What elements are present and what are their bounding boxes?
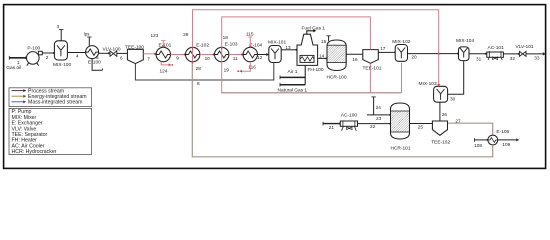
- svg-text:9: 9: [176, 56, 179, 61]
- legend Energy-integrated stream: [12, 94, 87, 100]
- svg-text:P-100: P-100: [27, 46, 40, 52]
- energy loop inner red: [220, 17, 401, 93]
- wire stream 7: [143, 53, 156, 55]
- svg-text:11: 11: [233, 56, 238, 61]
- svg-text:Gas oil: Gas oil: [6, 65, 21, 71]
- wire stream 16: [346, 53, 365, 55]
- svg-text:Fuel Gas 1: Fuel Gas 1: [302, 25, 326, 31]
- svg-text:7: 7: [147, 57, 150, 62]
- wire stream 21 feed: [323, 122, 341, 126]
- exchanger E-101: [156, 47, 170, 61]
- mixer MIX-101: [269, 46, 281, 63]
- svg-text:MIX-100: MIX-100: [53, 62, 71, 68]
- svg-text:3: 3: [57, 24, 60, 29]
- svg-text:TEE-100: TEE-100: [125, 44, 144, 50]
- wire stream 33 outlet: [526, 52, 546, 55]
- svg-text:17: 17: [380, 46, 386, 51]
- svg-text:32: 32: [510, 56, 516, 61]
- svg-text:14: 14: [319, 53, 325, 58]
- wire stream 20: [408, 53, 460, 55]
- energy stream 124 out of E-101: [161, 62, 173, 67]
- svg-text:109: 109: [502, 142, 510, 147]
- wire stream 22: [358, 123, 392, 125]
- wire stream 14: [318, 57, 328, 59]
- svg-text:Mass-integrated stream: Mass-integrated stream: [28, 100, 83, 106]
- reactor HCR-101: [391, 103, 410, 139]
- svg-text:19: 19: [224, 67, 230, 72]
- legend Process stream: [12, 88, 65, 94]
- wire E-100 condensate out: [92, 59, 102, 71]
- energy loop tan from E-102 to E-105: [192, 62, 492, 157]
- mixer MIX-100: [54, 41, 67, 60]
- tee TEE-101: [363, 50, 379, 64]
- svg-text:116: 116: [248, 64, 256, 69]
- svg-text:MIX-101: MIX-101: [268, 40, 286, 46]
- wire stream 15: [326, 36, 330, 41]
- svg-text:13: 13: [285, 45, 291, 50]
- svg-text:23: 23: [376, 116, 382, 121]
- svg-text:123: 123: [151, 33, 159, 38]
- svg-text:26: 26: [442, 112, 448, 117]
- svg-text:25: 25: [418, 125, 424, 130]
- tee TEE-102: [432, 121, 447, 135]
- legend stream box: [9, 88, 92, 107]
- svg-text:FH-100: FH-100: [308, 67, 324, 73]
- wire stream 13: [281, 49, 297, 51]
- reactor HCR-100: [327, 40, 346, 71]
- svg-text:E-103: E-103: [225, 42, 238, 48]
- svg-text:E-102: E-102: [196, 43, 209, 49]
- wire stream 4: [68, 52, 87, 54]
- svg-text:VLV-100: VLV-100: [103, 46, 121, 52]
- svg-text:33: 33: [534, 55, 540, 60]
- svg-text:lps: lps: [84, 32, 89, 37]
- cooler AC-101: [487, 51, 504, 60]
- svg-text:31: 31: [476, 56, 482, 61]
- svg-text:TEE-101: TEE-101: [363, 66, 382, 72]
- svg-text:1: 1: [17, 60, 20, 65]
- svg-text:E-101: E-101: [159, 43, 172, 49]
- wire stream 26: [439, 102, 441, 121]
- wire Natural Gas 1 feed: [280, 66, 305, 87]
- exchanger E-100: [86, 46, 99, 59]
- wire stream 10: [200, 53, 215, 55]
- wire stream 9: [171, 53, 186, 55]
- wire Fuel Gas 1 outlet: [307, 29, 317, 34]
- svg-text:VLV-101: VLV-101: [516, 44, 534, 50]
- svg-text:HCR-101: HCR-101: [391, 145, 411, 151]
- wire lps utility into E-100: [87, 37, 91, 46]
- wire stream 2: [42, 52, 55, 54]
- svg-text:4: 4: [76, 54, 79, 59]
- heater FH-100 furnace: [297, 34, 318, 65]
- svg-text:29: 29: [183, 32, 189, 37]
- svg-text:MIX-103: MIX-103: [419, 81, 437, 87]
- svg-text:5: 5: [96, 55, 99, 60]
- wire stream 32: [503, 53, 519, 55]
- svg-text:20: 20: [411, 55, 417, 60]
- exchanger E-104: [243, 47, 257, 61]
- svg-text:30: 30: [450, 97, 456, 102]
- mixer MIX-102: [395, 45, 407, 62]
- svg-text:108: 108: [474, 143, 482, 148]
- svg-text:HCR-100: HCR-100: [327, 75, 347, 81]
- valve VLV-100: [110, 51, 117, 56]
- energy line through E-102: [191, 47, 194, 62]
- svg-text:28: 28: [196, 66, 202, 71]
- wire Air 1 feed: [280, 76, 305, 80]
- wire stream 17: [378, 51, 396, 53]
- svg-text:8: 8: [197, 81, 200, 86]
- svg-text:AC-100: AC-100: [341, 113, 358, 119]
- svg-text:HCR: Hydrocracker: HCR: Hydrocracker: [12, 149, 57, 155]
- frame border: [4, 5, 546, 169]
- svg-text:MIX-104: MIX-104: [456, 38, 474, 44]
- svg-text:MIX-102: MIX-102: [392, 39, 410, 45]
- wire stream 3: [59, 30, 63, 42]
- valve VLV-101: [519, 51, 526, 56]
- svg-text:21: 21: [329, 125, 335, 130]
- svg-text:24: 24: [376, 105, 382, 110]
- exchanger E-103: [215, 47, 229, 61]
- energy stream 116 out of E-104: [237, 62, 250, 73]
- svg-text:16: 16: [352, 57, 358, 62]
- mixer MIX-104: [459, 47, 470, 61]
- wire stream 25: [410, 123, 435, 125]
- svg-text:12: 12: [257, 55, 263, 60]
- wire stream 108: [474, 138, 488, 142]
- svg-text:E-105: E-105: [496, 129, 509, 135]
- svg-text:6: 6: [120, 55, 123, 60]
- svg-text:TEE-102: TEE-102: [431, 139, 450, 145]
- wire stream 5: [99, 52, 110, 54]
- exchanger E-102: [186, 47, 200, 61]
- pump P-100: [27, 51, 43, 65]
- wire stream 23: [367, 114, 391, 116]
- wire stream 24 feed: [371, 97, 375, 115]
- svg-text:E-100: E-100: [88, 60, 101, 66]
- svg-text:124: 124: [160, 68, 168, 73]
- legend Mass-integrated stream: [12, 100, 83, 106]
- svg-text:15: 15: [321, 39, 327, 44]
- svg-text:22: 22: [370, 124, 376, 129]
- wire stream 11: [229, 53, 243, 55]
- energy stream 123 into E-101: [161, 41, 165, 49]
- svg-text:Air 1: Air 1: [288, 69, 298, 75]
- cooler AC-100: [340, 121, 357, 131]
- tee TEE-100: [127, 49, 143, 63]
- wire stream 31: [469, 53, 487, 55]
- svg-text:2: 2: [46, 55, 49, 60]
- exchanger E-105: [488, 135, 498, 145]
- svg-text:E-104: E-104: [249, 43, 262, 49]
- wire stream 12: [258, 53, 270, 56]
- svg-text:27: 27: [455, 118, 461, 123]
- mixer MIX-103: [434, 86, 448, 102]
- wire stream 30: [448, 61, 464, 95]
- wire stream 8 bypass: [135, 63, 273, 80]
- legend abbreviation box: [9, 108, 92, 154]
- wire stream 109 outlet: [498, 138, 520, 141]
- svg-text:AC-101: AC-101: [488, 45, 505, 51]
- wire stream 1 Gas oil feed: [9, 56, 27, 60]
- energy stream 27 tan path to E-105: [448, 123, 493, 135]
- energy loop outer red: [193, 10, 441, 87]
- energy stream 115 into E-104: [248, 37, 252, 49]
- svg-text:115: 115: [246, 31, 254, 36]
- wire stream 6: [117, 52, 130, 54]
- svg-text:10: 10: [205, 56, 211, 61]
- svg-text:18: 18: [223, 35, 229, 40]
